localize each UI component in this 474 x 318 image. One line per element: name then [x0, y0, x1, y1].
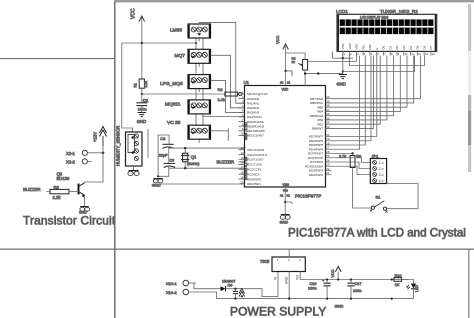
- op-amp U1 box: [245, 86, 326, 188]
- svg-text:S1: S1: [376, 194, 382, 199]
- frame: vertical section divider: [114, 2, 116, 318]
- svg-text:Q1: Q1: [191, 154, 197, 159]
- svg-text:RD2/PSP2: RD2/PSP2: [309, 173, 323, 177]
- lcd pin labels (vertical): [341, 42, 433, 49]
- wire staircase RB3-D3: [332, 56, 394, 116]
- connector J2 humidity: [126, 132, 143, 166]
- svg-text:9: 9: [398, 52, 400, 56]
- frame: right border of power supply: [468, 249, 470, 318]
- left pin stubs: [239, 94, 245, 184]
- svg-text:RC2/CCP1: RC2/CCP1: [247, 168, 262, 172]
- svg-text:VCC: VCC: [275, 35, 280, 44]
- svg-text:2: 2: [288, 258, 290, 262]
- wire R5 bottom to gnd rail and PIC VDD: [304, 70, 306, 86]
- svg-text:5: 5: [371, 52, 373, 56]
- wire RC4 to JP1 pin3: [332, 166, 371, 174]
- wire staircase RB2-D2: [332, 56, 387, 120]
- svg-text:14: 14: [432, 52, 435, 56]
- wire VSS/VDD to gnd: [332, 51, 353, 58]
- svg-text:RA0/AN0: RA0/AN0: [247, 97, 259, 101]
- svg-text:11: 11: [287, 81, 290, 85]
- wire R1 to R2: [141, 93, 143, 95]
- wire staircase RB5-D5: [332, 56, 408, 108]
- svg-text:C1: C1: [143, 98, 149, 103]
- svg-text:RE1/WR/AN6: RE1/WR/AN6: [247, 129, 265, 133]
- wire from VCC rail to connector: [122, 43, 142, 132]
- svg-text:X10-2: X10-2: [166, 290, 177, 295]
- wire long bus b: [343, 56, 415, 72]
- svg-text:12: 12: [418, 52, 421, 56]
- svg-text:RW: RW: [368, 44, 372, 49]
- wire C1 to gnd: [141, 106, 143, 113]
- svg-text:7805: 7805: [260, 259, 270, 264]
- svg-text:13: 13: [425, 52, 428, 56]
- svg-text:D1: D1: [388, 45, 392, 49]
- svg-text:1K: 1K: [395, 283, 400, 287]
- svg-text:11: 11: [411, 52, 414, 56]
- svg-text:1: 1: [344, 52, 346, 56]
- wire 7805 out rail: [300, 272, 408, 280]
- wire base: [69, 191, 79, 193]
- svg-text:D2: D2: [395, 45, 399, 49]
- svg-text:MCLR/Vpp/THV: MCLR/Vpp/THV: [247, 92, 268, 96]
- svg-text:2.2k: 2.2k: [53, 195, 62, 200]
- pin VSS bottom: [284, 187, 286, 215]
- node VCC junction: [141, 42, 143, 44]
- frame: right gray scroll bars: [468, 4, 471, 51]
- wire staircase RD4: [332, 56, 360, 150]
- wire RC5 to JP1 pin2: [332, 162, 371, 169]
- capacitor C15 input: [233, 292, 238, 294]
- svg-text:D3: D3: [402, 45, 406, 49]
- svg-text:VCC: VCC: [331, 269, 335, 277]
- svg-text:100n: 100n: [353, 289, 361, 293]
- svg-text:10: 10: [405, 52, 408, 56]
- ground PIC VSS: [281, 214, 290, 216]
- svg-text:GND: GND: [137, 119, 146, 124]
- wire MQ811 out to PIC RA3: [203, 114, 245, 117]
- svg-text:RC1/T1OSI: RC1/T1OSI: [247, 163, 262, 167]
- svg-text:2: 2: [350, 52, 352, 56]
- svg-text:D4: D4: [409, 45, 413, 49]
- wire staircase RB4-D4: [332, 56, 401, 112]
- svg-text:VC 35: VC 35: [167, 120, 181, 126]
- wire gnd L rail: [158, 135, 169, 176]
- svg-text:RE2/CS/AN7: RE2/CS/AN7: [247, 134, 264, 138]
- wire humidity aux vertical: [147, 129, 149, 158]
- wire RC7 to R8: [332, 153, 353, 155]
- wire R8 bottom to S1: [353, 168, 372, 209]
- svg-text:Transistor Circuit: Transistor Circuit: [23, 214, 116, 228]
- svg-text:1: 1: [379, 161, 381, 165]
- sensor LM35: [170, 24, 211, 38]
- wire VC35 out to PIC: [211, 128, 229, 140]
- svg-text:32: 32: [280, 81, 284, 85]
- svg-text:X2-1: X2-1: [66, 151, 76, 156]
- wire sensor vcc chain: [195, 38, 197, 125]
- svg-text:D5: D5: [416, 45, 420, 49]
- svg-text:VDD: VDD: [348, 42, 352, 49]
- svg-text:vss: vss: [283, 188, 288, 192]
- svg-text:JP1: JP1: [372, 154, 380, 159]
- svg-text:RE0/RD/AN5: RE0/RD/AN5: [247, 124, 264, 128]
- wire OSC1 to PIC: [169, 147, 245, 149]
- svg-text:POWER SUPPLY: POWER SUPPLY: [230, 305, 326, 318]
- power VCC arrow: [131, 8, 145, 43]
- svg-text:RA2/AN2: RA2/AN2: [247, 106, 259, 110]
- wire diode to 7805: [226, 272, 279, 297]
- svg-text:+12V: +12V: [93, 132, 98, 142]
- ground crystal caps: [153, 178, 163, 180]
- frame: top gray bar: [115, 0, 474, 2]
- svg-text:2: 2: [379, 167, 381, 171]
- wire VDD stub left: [285, 46, 287, 86]
- svg-text:BD139: BD139: [57, 176, 70, 181]
- svg-text:VEE: VEE: [355, 43, 359, 49]
- svg-text:X10-1: X10-1: [166, 281, 177, 286]
- svg-text:10: 10: [240, 132, 244, 136]
- wire collector to +12V: [85, 146, 104, 183]
- wire X10-2 to gnd rail: [189, 292, 414, 299]
- right pin numbers: [326, 95, 330, 175]
- svg-text:100n: 100n: [138, 107, 147, 112]
- svg-text:RB0/INT: RB0/INT: [312, 127, 323, 131]
- frame: power-supply divider: [0, 248, 474, 250]
- sensor MQ811: [165, 100, 211, 114]
- svg-text:C3: C3: [170, 159, 175, 163]
- svg-text:RD1/PSP1: RD1/PSP1: [247, 182, 261, 186]
- wire LED to gnd rail: [413, 289, 415, 299]
- svg-text:RA4/T0CKI: RA4/T0CKI: [247, 115, 262, 119]
- wire X10-1 to diode: [194, 283, 221, 289]
- svg-text:15: 15: [240, 156, 244, 160]
- wire staircase RD5-RS: [332, 56, 366, 146]
- wire staircase RB1-D1: [332, 56, 381, 125]
- svg-text:1: 1: [277, 258, 279, 262]
- svg-text:(8MHz): (8MHz): [187, 162, 200, 166]
- lcd LCD1 box: [337, 14, 437, 51]
- ground Q3 emitter: [80, 206, 88, 208]
- svg-text:VSS: VSS: [341, 43, 345, 49]
- svg-text:D7: D7: [429, 45, 433, 49]
- svg-text:R2: R2: [218, 87, 224, 92]
- wire C2 to C3: [168, 148, 170, 164]
- svg-text:12: 12: [287, 194, 291, 198]
- svg-text:VO: VO: [295, 275, 299, 280]
- svg-text:17: 17: [240, 166, 244, 170]
- svg-text:RS: RS: [361, 45, 365, 49]
- wire staircase RB0-D0: [332, 56, 374, 129]
- wire RD1 row: [158, 183, 245, 185]
- capacitor C1: [136, 103, 147, 106]
- wire VCC rail down: [141, 43, 143, 79]
- svg-text:3: 3: [357, 52, 359, 56]
- wire VEE to R5 wiper: [308, 51, 357, 61]
- power arrow input: [239, 289, 245, 297]
- svg-text:RD0/PSP0: RD0/PSP0: [247, 177, 261, 181]
- svg-text:8: 8: [391, 52, 393, 56]
- svg-text:OSC2/CLKOUT: OSC2/CLKOUT: [247, 153, 268, 157]
- wire C3 to gnd: [158, 167, 169, 177]
- svg-text:GND: GND: [284, 276, 288, 284]
- crystal Q1: [184, 148, 186, 168]
- svg-text:31: 31: [280, 194, 284, 198]
- svg-text:3: 3: [299, 258, 301, 262]
- svg-text:GND: GND: [280, 221, 289, 225]
- svg-text:LCD1: LCD1: [336, 9, 348, 14]
- svg-text:7: 7: [384, 52, 386, 56]
- svg-text:2.2k: 2.2k: [218, 97, 226, 102]
- svg-text:RA1/AN1: RA1/AN1: [247, 101, 259, 105]
- svg-text:BUZZER: BUZZER: [23, 187, 41, 192]
- svg-text:BUZZER: BUZZER: [217, 160, 235, 165]
- svg-text:16: 16: [240, 161, 244, 165]
- lcd pin numbers: [344, 52, 436, 56]
- svg-text:E: E: [375, 47, 379, 49]
- svg-text:VDD: VDD: [282, 88, 289, 92]
- svg-text:100u: 100u: [308, 287, 316, 291]
- svg-text:RA3/AN3: RA3/AN3: [247, 111, 259, 115]
- wire gnd drop: [342, 58, 344, 74]
- svg-text:TUXGR_16X2_R2: TUXGR_16X2_R2: [380, 9, 418, 14]
- right pin labels: [305, 97, 324, 177]
- right pin stubs: [326, 99, 332, 175]
- node MCLR terminal: [238, 93, 239, 95]
- svg-text:RA5/AN4/SS: RA5/AN4/SS: [247, 120, 264, 124]
- ground below humidity connector: [128, 171, 139, 176]
- wire R5 top to VCC: [286, 53, 306, 60]
- svg-text:D0: D0: [382, 45, 386, 49]
- wire staircase RB7-D7: [332, 56, 421, 99]
- svg-text:18: 18: [240, 171, 244, 175]
- svg-text:33: 33: [326, 125, 330, 129]
- svg-text:VSS: VSS: [283, 183, 289, 187]
- wire staircase RB6-D6: [332, 56, 414, 103]
- wire to sensor chain: [142, 42, 196, 44]
- svg-text:X2-2: X2-2: [66, 159, 76, 164]
- svg-text:VCC: VCC: [131, 8, 137, 19]
- svg-text:GND: GND: [335, 304, 344, 309]
- svg-text:MQ7: MQ7: [175, 53, 186, 59]
- svg-text:1k: 1k: [292, 60, 296, 64]
- left pin labels: [247, 92, 268, 186]
- svg-text:LED: LED: [415, 285, 419, 292]
- svg-text:LCD DISPLAY 16x2: LCD DISPLAY 16x2: [360, 15, 388, 19]
- led D8: [411, 284, 416, 289]
- wire MQ7 out to PIC RA1: [211, 55, 245, 108]
- wire 7805 gnd pin: [288, 272, 290, 299]
- svg-text:HUMIDITY_SENSOR: HUMIDITY_SENSOR: [116, 126, 121, 166]
- wire JP1 to S1 loop: [387, 184, 418, 209]
- left pin numbers: [240, 90, 244, 184]
- svg-text:C17: C17: [355, 282, 362, 286]
- svg-text:GND: GND: [152, 182, 161, 187]
- wire RC6 to JP1 pin1: [332, 158, 371, 163]
- svg-text:U1: U1: [244, 80, 250, 85]
- svg-text:RC0/T1OSO: RC0/T1OSO: [247, 158, 264, 162]
- sensor LPG_MQ6: [160, 75, 211, 89]
- svg-text:4: 4: [379, 179, 381, 183]
- wire LM35 out to PIC RA0: [199, 22, 244, 103]
- svg-text:GND: GND: [337, 82, 346, 87]
- svg-text:C16: C16: [310, 282, 317, 286]
- svg-text:D6: D6: [422, 45, 426, 49]
- wire OSC2 to PIC: [169, 167, 244, 169]
- svg-text:LM35: LM35: [170, 28, 182, 34]
- sensor VC35: [167, 120, 211, 139]
- svg-text:PIC16F877P: PIC16F877P: [295, 194, 321, 199]
- wire staircase RD7-E: [332, 56, 377, 137]
- lcd pin stubs: [343, 51, 431, 55]
- svg-text:VI: VI: [273, 277, 277, 280]
- wire emitter to gnd: [84, 195, 86, 206]
- svg-text:21: 21: [326, 171, 330, 175]
- svg-text:RC3/SCK: RC3/SCK: [247, 172, 260, 176]
- wire R1 to C1: [141, 88, 143, 102]
- ground under LCD: [339, 75, 347, 79]
- svg-text:4: 4: [364, 52, 366, 56]
- svg-text:22pF: 22pF: [159, 153, 168, 157]
- svg-text:19: 19: [240, 175, 244, 179]
- ground below C1: [138, 113, 146, 117]
- svg-text:14: 14: [240, 151, 244, 155]
- svg-text:C2: C2: [160, 136, 166, 141]
- svg-text:D6: D6: [228, 284, 233, 288]
- resistor R1: [134, 79, 148, 88]
- wire R10 to LED: [402, 280, 414, 284]
- svg-text:3: 3: [379, 173, 381, 177]
- lcd character cells: [340, 19, 434, 34]
- wire long bus a: [350, 56, 425, 66]
- svg-text:LPG_MQ6: LPG_MQ6: [160, 81, 183, 87]
- svg-text:PIC16F877A with LCD and Crysta: PIC16F877A with LCD and Crystal: [288, 226, 466, 239]
- wire LPG_MQ6 out to PIC RA2: [211, 81, 245, 113]
- svg-text:20: 20: [240, 180, 244, 184]
- svg-text:MQ811: MQ811: [165, 102, 181, 108]
- svg-text:6: 6: [378, 52, 380, 56]
- frame: left horizontal divider: [0, 58, 115, 60]
- svg-text:OSC1/CLKIN: OSC1/CLKIN: [247, 148, 264, 152]
- svg-text:R1: R1: [134, 83, 138, 87]
- wire connector to gnd: [133, 166, 135, 171]
- wire staircase RD6-RW: [332, 56, 372, 141]
- sensor MQ7: [175, 49, 211, 63]
- svg-text:2.2k: 2.2k: [144, 81, 148, 88]
- svg-text:13: 13: [240, 146, 244, 150]
